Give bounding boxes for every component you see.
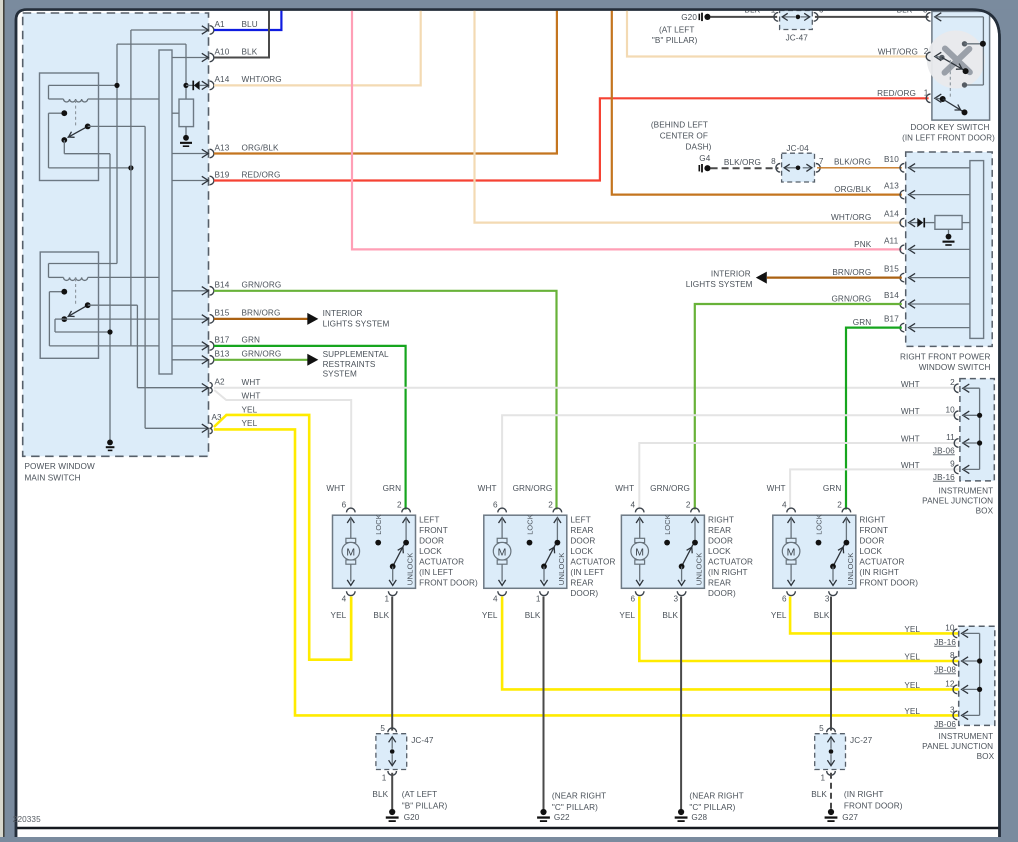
- svg-text:REAR: REAR: [708, 578, 731, 587]
- pin B15 connector: [900, 273, 904, 282]
- door lock actuator 2 motor lead lower: [501, 564, 503, 581]
- wire BLK actuator2 to G22: [543, 597, 545, 810]
- door lock actuator 2 moving contact: [541, 564, 547, 570]
- bus bar: [159, 50, 172, 374]
- wire WHT/ORG from top to A14: [475, 10, 902, 223]
- svg-text:2: 2: [924, 47, 929, 56]
- door lock actuator 4 pin 3 connector: [829, 591, 838, 595]
- ground G20 top: [699, 14, 701, 20]
- junction box 2 internal bus: [979, 633, 981, 715]
- wire contact stub: [965, 43, 984, 45]
- svg-text:6: 6: [631, 595, 636, 604]
- bus bar right switch: [970, 161, 984, 339]
- svg-text:BLK: BLK: [372, 790, 388, 799]
- door lock actuator 2 motor lead: [501, 518, 503, 539]
- svg-text:DOOR KEY SWITCH: DOOR KEY SWITCH: [910, 123, 989, 132]
- svg-text:DOOR: DOOR: [570, 536, 595, 545]
- junction box 1 internal bus: [979, 388, 981, 469]
- svg-text:YEL: YEL: [242, 406, 258, 415]
- wire relay2 common to ground: [55, 318, 64, 320]
- wire BLK A10: [214, 10, 269, 58]
- pin 8 connector IPJB2: [953, 657, 957, 666]
- wire A1 feed x131: [130, 30, 132, 346]
- svg-text:LOCK: LOCK: [708, 547, 731, 556]
- svg-text:B14: B14: [884, 291, 899, 300]
- svg-text:LEFT: LEFT: [419, 515, 439, 524]
- door lock actuator 3 pin 6 connector: [635, 591, 644, 595]
- top frame bar: [0, 0, 1018, 9]
- svg-text:BLK/ORG: BLK/ORG: [724, 158, 761, 167]
- pin A14 connector: [202, 81, 209, 89]
- svg-text:SYSTEM: SYSTEM: [323, 369, 357, 378]
- svg-text:WHT: WHT: [767, 484, 786, 493]
- svg-text:INSTRUMENT: INSTRUMENT: [939, 732, 994, 741]
- svg-text:FRONT: FRONT: [859, 526, 888, 535]
- svg-text:BOX: BOX: [977, 752, 995, 761]
- wire B14 row: [172, 290, 207, 292]
- wire B10 internal: [909, 167, 970, 169]
- svg-text:G4: G4: [699, 154, 710, 163]
- svg-text:DOOR: DOOR: [419, 536, 444, 545]
- wire BLK actuator4 to JC-27: [830, 597, 832, 731]
- pin A13 connector: [900, 190, 904, 199]
- svg-text:REAR: REAR: [708, 526, 731, 535]
- svg-text:ORG/BLK: ORG/BLK: [834, 185, 872, 194]
- wire relay1 contact a: [49, 112, 65, 114]
- svg-text:M: M: [346, 546, 355, 558]
- svg-text:1: 1: [821, 774, 826, 783]
- wire BLK actuator1 to JC-47: [391, 597, 393, 731]
- wire relay2 NO to A2: [88, 304, 138, 306]
- door lock actuator 4 box: [773, 515, 856, 588]
- wire A3 row internal: [145, 427, 207, 429]
- door lock actuator 1 pin 1 connector: [388, 591, 397, 595]
- svg-text:GRN/ORG: GRN/ORG: [242, 350, 282, 359]
- ground symbol: [946, 234, 952, 240]
- door lock actuator 1 motor lead: [350, 518, 352, 539]
- pin B19 connector: [202, 176, 209, 184]
- pin B10 connector: [900, 164, 904, 173]
- wire BLU A1: [214, 10, 282, 31]
- door lock actuator 3 switch arm: [682, 545, 693, 567]
- svg-text:DOOR: DOOR: [859, 536, 884, 545]
- relay1 mech link: [75, 100, 77, 127]
- svg-text:10: 10: [945, 405, 955, 414]
- wire YEL actuator2 to junction box: [502, 597, 959, 690]
- wire BRN/ORG interior lights right: [767, 277, 902, 279]
- door lock actuator 4 motor lead lower: [790, 564, 792, 581]
- door lock actuator 1 pin 2 connector: [402, 508, 411, 512]
- door lock actuator 1 switch lead lower: [392, 566, 394, 581]
- pin A13 connector: [202, 149, 209, 157]
- door lock actuator 1 fixed contact: [403, 540, 409, 546]
- svg-text:6: 6: [493, 500, 498, 509]
- wire resistor to bus: [962, 222, 970, 224]
- diagram bottom border: [16, 827, 1000, 829]
- svg-text:G28: G28: [691, 813, 707, 822]
- wire YEL A3 to actuator1: [214, 415, 351, 660]
- svg-text:220335: 220335: [13, 815, 41, 824]
- svg-text:WHT/ORG: WHT/ORG: [878, 47, 918, 56]
- svg-text:2: 2: [837, 500, 842, 509]
- pin 3 connector: [926, 13, 930, 22]
- door lock actuator 2 switch feed: [556, 518, 558, 543]
- door lock actuator 4 pin 2 connector: [842, 508, 851, 512]
- svg-text:4: 4: [493, 595, 498, 604]
- svg-text:WHT: WHT: [901, 380, 920, 389]
- svg-text:WHT: WHT: [901, 461, 920, 470]
- svg-text:FRONT DOOR): FRONT DOOR): [419, 578, 478, 587]
- svg-text:(IN LEFT FRONT DOOR): (IN LEFT FRONT DOOR): [902, 133, 995, 142]
- svg-text:B15: B15: [884, 265, 899, 274]
- svg-text:FRONT DOOR): FRONT DOOR): [844, 802, 903, 811]
- svg-text:B19: B19: [215, 170, 230, 179]
- svg-text:RESTRAINTS: RESTRAINTS: [323, 360, 376, 369]
- door lock actuator 1 switch arm: [393, 545, 404, 567]
- door lock actuator 1 motor lead lower: [350, 564, 352, 581]
- svg-text:(IN RIGHT: (IN RIGHT: [844, 790, 884, 799]
- svg-text:11: 11: [946, 433, 955, 442]
- junction dot: [977, 687, 982, 692]
- wire B17 row: [49, 345, 207, 347]
- svg-text:FRONT DOOR): FRONT DOOR): [859, 578, 918, 587]
- door lock actuator 1 switch feed: [405, 518, 407, 543]
- svg-text:A10: A10: [215, 47, 230, 56]
- svg-text:DOOR): DOOR): [570, 589, 598, 598]
- svg-text:WHT: WHT: [615, 484, 634, 493]
- wire WHT to actuator4: [790, 469, 959, 509]
- door lock actuator 3 pin 2 connector: [691, 508, 700, 512]
- svg-text:1: 1: [924, 89, 929, 98]
- svg-text:FRONT: FRONT: [419, 526, 448, 535]
- contact dot pin1: [940, 96, 946, 102]
- wire BLK G20 to JC-47: [711, 16, 778, 18]
- pin B17 connector: [202, 342, 209, 350]
- mech link dashed: [949, 60, 951, 99]
- svg-text:GRN: GRN: [853, 318, 872, 327]
- wire vertical to resistor: [185, 44, 187, 99]
- contact dot: [61, 110, 67, 116]
- door lock actuator 1 moving contact: [390, 564, 396, 570]
- wire B15 row internal: [64, 318, 207, 320]
- svg-text:WHT/ORG: WHT/ORG: [242, 75, 282, 84]
- svg-text:DASH): DASH): [686, 142, 712, 151]
- wire B15 internal: [909, 277, 970, 279]
- svg-text:RED/ORG: RED/ORG: [877, 89, 916, 98]
- svg-text:WHT: WHT: [478, 484, 497, 493]
- svg-text:YEL: YEL: [482, 611, 498, 620]
- wire relay1 notch: [48, 85, 50, 99]
- svg-text:M: M: [787, 546, 796, 558]
- svg-text:(AT LEFT: (AT LEFT: [659, 26, 695, 35]
- door lock actuator 4 pin 6 connector: [787, 591, 796, 595]
- door key switch internal top: [935, 16, 983, 18]
- wire ORG/BLK A13: [214, 10, 557, 154]
- door lock actuator 2 pin 2 connector: [553, 508, 562, 512]
- junction dot A14 branch: [183, 83, 188, 88]
- pin 2 connector: [926, 52, 930, 61]
- pin A10 connector: [202, 53, 209, 61]
- svg-text:GRN: GRN: [823, 484, 842, 493]
- svg-text:INTERIOR: INTERIOR: [711, 269, 751, 278]
- svg-text:1: 1: [382, 774, 387, 783]
- junction connector JC-47 top: [780, 11, 813, 30]
- svg-text:UNLOCK: UNLOCK: [846, 552, 855, 585]
- svg-text:5: 5: [819, 724, 824, 733]
- wire A1 row: [131, 29, 207, 31]
- pin 10 connector IPJB1: [954, 411, 958, 420]
- svg-text:YEL: YEL: [331, 611, 347, 620]
- door key switch box: [932, 11, 990, 120]
- svg-text:(BEHIND LEFT: (BEHIND LEFT: [651, 120, 708, 129]
- motor M1: [346, 538, 356, 542]
- svg-text:"B" PILLAR): "B" PILLAR): [402, 802, 448, 811]
- svg-text:LIGHTS SYSTEM: LIGHTS SYSTEM: [323, 320, 390, 329]
- svg-text:LOCK: LOCK: [525, 514, 534, 535]
- wire BLK JC-47 to G20: [391, 773, 393, 809]
- pin 10 connector IPJB2: [953, 629, 957, 638]
- pin A3 connector: [202, 424, 209, 432]
- svg-text:2: 2: [686, 500, 691, 509]
- door lock actuator 4 pin 4 connector: [787, 508, 796, 512]
- ground symbol internal: [107, 440, 113, 446]
- svg-text:BLK: BLK: [242, 47, 258, 56]
- svg-text:G20: G20: [681, 13, 697, 22]
- svg-text:PNK: PNK: [854, 240, 872, 249]
- wire relay2 notch: [48, 264, 50, 278]
- wire bus to resistor: [172, 112, 179, 114]
- svg-text:UNLOCK: UNLOCK: [406, 552, 415, 585]
- svg-text:(IN RIGHT: (IN RIGHT: [708, 568, 748, 577]
- svg-text:YEL: YEL: [904, 681, 920, 690]
- wire relay1 NO to A3 line: [88, 125, 145, 127]
- wire pin2 stub: [935, 56, 942, 59]
- pin 3 connector IPJB2: [953, 711, 957, 720]
- wire ground line x110: [109, 154, 111, 441]
- wire resistor to ground: [185, 127, 187, 135]
- ground G20 bottom: [389, 809, 395, 815]
- svg-text:M: M: [635, 546, 644, 558]
- wire coil2 to bus: [49, 276, 64, 278]
- door lock actuator 2 box: [484, 515, 567, 588]
- wire relay1 common: [63, 140, 65, 154]
- svg-text:YEL: YEL: [904, 707, 920, 716]
- junction dot: [977, 413, 982, 418]
- wire B14 internal: [909, 303, 970, 305]
- ground G28: [678, 809, 684, 815]
- wire WHT to actuator3: [639, 443, 959, 510]
- relay2 coil L2: [64, 277, 88, 280]
- wire A13 internal: [909, 194, 970, 196]
- svg-text:4: 4: [782, 500, 787, 509]
- svg-text:YEL: YEL: [904, 625, 920, 634]
- svg-text:"C" PILLAR): "C" PILLAR): [552, 803, 598, 812]
- svg-text:WHT: WHT: [901, 435, 920, 444]
- wire PNK from top: [352, 10, 902, 250]
- svg-text:UNLOCK: UNLOCK: [557, 552, 566, 585]
- svg-text:GRN/ORG: GRN/ORG: [650, 484, 690, 493]
- pin B14 connector: [900, 300, 904, 309]
- wire YEL actuator1 pin4: [350, 597, 353, 660]
- svg-text:INSTRUMENT: INSTRUMENT: [939, 487, 994, 496]
- door lock actuator 2 pin 4 connector: [498, 591, 507, 595]
- svg-text:YEL: YEL: [771, 611, 787, 620]
- door lock actuator 4 switch lead lower: [832, 566, 834, 581]
- wire A10 row: [172, 57, 207, 59]
- svg-text:WINDOW SWITCH: WINDOW SWITCH: [919, 363, 991, 372]
- switch arm upper: [942, 57, 966, 71]
- svg-text:BLU: BLU: [242, 20, 258, 29]
- wire GRN/ORG B14 to actuator2: [214, 291, 557, 510]
- contact dot lower: [962, 82, 967, 87]
- contact dot: [61, 137, 67, 143]
- svg-text:JC-47: JC-47: [786, 34, 809, 43]
- relay2 switch arm: [68, 305, 88, 317]
- svg-text:JB-06: JB-06: [933, 446, 955, 455]
- junction dot: [977, 658, 982, 663]
- svg-text:JB-16: JB-16: [933, 473, 955, 482]
- close icon X: [945, 49, 970, 73]
- svg-text:LOCK: LOCK: [419, 547, 442, 556]
- svg-text:GRN/ORG: GRN/ORG: [831, 294, 871, 303]
- svg-text:BLK: BLK: [814, 611, 830, 620]
- svg-text:(IN LEFT: (IN LEFT: [419, 568, 453, 577]
- svg-text:RIGHT: RIGHT: [859, 515, 885, 524]
- wire relay2 contact branch: [48, 292, 50, 346]
- svg-text:JB-06: JB-06: [934, 720, 956, 729]
- svg-text:LEFT: LEFT: [570, 515, 590, 524]
- door lock actuator 2 switch arm: [544, 545, 555, 567]
- svg-text:M: M: [498, 546, 507, 558]
- svg-text:3: 3: [673, 595, 678, 604]
- door lock actuator 1 box: [333, 515, 416, 588]
- svg-text:A2: A2: [215, 378, 226, 387]
- pin 1 connector: [926, 94, 930, 103]
- svg-text:YEL: YEL: [619, 611, 635, 620]
- svg-text:RIGHT FRONT POWER: RIGHT FRONT POWER: [900, 353, 991, 362]
- resistor R2: [935, 216, 962, 230]
- ground G22: [540, 809, 546, 815]
- svg-text:(IN LEFT: (IN LEFT: [570, 568, 604, 577]
- svg-text:GRN/ORG: GRN/ORG: [242, 281, 282, 290]
- svg-text:YEL: YEL: [242, 419, 258, 428]
- wire YEL actuator3 to junction box: [639, 597, 959, 662]
- pin 12 connector IPJB2: [953, 685, 957, 694]
- svg-text:ACTUATOR: ACTUATOR: [859, 557, 904, 566]
- moving contact dot: [963, 68, 969, 74]
- svg-text:WHT: WHT: [326, 484, 345, 493]
- wire B19 row: [172, 180, 207, 182]
- wire BLK actuator3 to G28: [680, 597, 682, 810]
- junction dot: [114, 83, 119, 88]
- svg-text:2: 2: [950, 378, 955, 387]
- svg-text:DOOR): DOOR): [708, 589, 736, 598]
- svg-text:B13: B13: [215, 350, 230, 359]
- wire WHT A2 to junction box: [214, 387, 959, 389]
- resistor R1: [179, 99, 194, 127]
- svg-text:GRN: GRN: [242, 336, 261, 345]
- svg-text:B14: B14: [215, 281, 230, 290]
- svg-text:1: 1: [536, 595, 541, 604]
- svg-text:ACTUATOR: ACTUATOR: [708, 557, 753, 566]
- pin B17 connector: [900, 323, 904, 332]
- svg-text:4: 4: [631, 500, 636, 509]
- wire WHT to actuator2: [502, 415, 959, 509]
- door lock actuator 2 pin 1 connector: [540, 591, 549, 595]
- pin A11 connector: [900, 245, 904, 254]
- svg-text:8: 8: [950, 651, 955, 660]
- wire BLK/ORG from top to A13: [612, 10, 902, 195]
- svg-text:BRN/ORG: BRN/ORG: [832, 268, 871, 277]
- wire GRN B17 right to actuator4: [846, 328, 902, 510]
- wire coil1 to bus: [49, 98, 64, 100]
- svg-text:PANEL JUNCTION: PANEL JUNCTION: [922, 742, 993, 751]
- pin A14 connector: [900, 218, 904, 227]
- svg-text:GRN/ORG: GRN/ORG: [513, 484, 553, 493]
- svg-text:9: 9: [950, 459, 955, 468]
- wire GRN/ORG B13 to SRS: [214, 359, 310, 361]
- svg-text:LOCK: LOCK: [663, 514, 672, 535]
- svg-text:RIGHT: RIGHT: [708, 515, 734, 524]
- svg-text:G27: G27: [842, 813, 858, 822]
- door lock actuator 4 motor lead: [790, 518, 792, 539]
- right front power window switch box: [906, 152, 993, 346]
- pin 2 connector IPJB1: [954, 384, 958, 393]
- contact dot pin2: [939, 55, 944, 60]
- svg-text:7: 7: [819, 157, 824, 166]
- svg-text:(NEAR RIGHT: (NEAR RIGHT: [689, 792, 743, 801]
- pin 11 connector IPJB1: [954, 439, 958, 448]
- diode D1: [192, 81, 194, 91]
- door lock actuator 2 fixed contact: [555, 540, 561, 546]
- arrow supplemental restraints: [307, 354, 318, 366]
- instrument panel junction box 1: [960, 379, 994, 481]
- door lock actuator 1 lock contact dot: [375, 540, 381, 546]
- svg-text:WHT: WHT: [901, 407, 920, 416]
- wire pin1 stub: [935, 97, 943, 100]
- door lock actuator 1 pin 4 connector: [347, 591, 356, 595]
- door lock actuator 3 moving contact: [679, 564, 685, 570]
- arrow interior lights system: [307, 313, 318, 325]
- wire BLK dashed JC-27 to G27: [830, 773, 832, 809]
- svg-text:A11: A11: [884, 236, 899, 245]
- wire A14 internal: [909, 222, 918, 224]
- svg-text:BLK: BLK: [811, 790, 827, 799]
- contact dot upper: [962, 41, 967, 46]
- svg-text:"C" PILLAR): "C" PILLAR): [689, 803, 735, 812]
- wire WHT/ORG A14: [214, 10, 421, 86]
- svg-text:2: 2: [397, 500, 402, 509]
- svg-text:1: 1: [385, 595, 390, 604]
- motor M3: [635, 538, 645, 542]
- svg-text:WHT: WHT: [242, 378, 261, 387]
- pin B13 connector: [202, 356, 209, 364]
- door lock actuator 3 box: [621, 515, 704, 588]
- svg-text:SUPPLEMENTAL: SUPPLEMENTAL: [323, 350, 389, 359]
- svg-text:LIGHTS SYSTEM: LIGHTS SYSTEM: [686, 280, 753, 289]
- junction dot: [977, 440, 982, 445]
- relay2 box: [40, 252, 98, 358]
- door lock actuator 3 fixed contact: [692, 540, 698, 546]
- wire relay1 contact branch: [48, 113, 50, 168]
- pin A2 connector: [202, 384, 209, 392]
- svg-text:JB-08: JB-08: [934, 665, 956, 674]
- svg-text:ORG/BLK: ORG/BLK: [242, 143, 280, 152]
- svg-text:POWER WINDOW: POWER WINDOW: [25, 462, 96, 471]
- pin A1 connector: [202, 26, 209, 34]
- svg-text:B15: B15: [215, 309, 230, 318]
- svg-text:A13: A13: [884, 182, 899, 191]
